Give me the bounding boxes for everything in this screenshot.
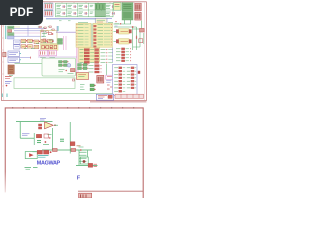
svg-text:F: F <box>77 176 81 182</box>
svg-text:MAGWAP: MAGWAP <box>37 160 61 166</box>
